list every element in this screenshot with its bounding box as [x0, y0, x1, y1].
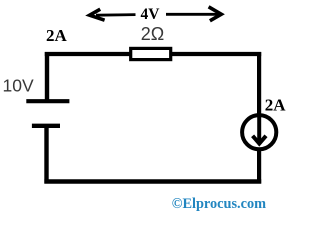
wire: right vertical top (to current source) — [257, 52, 261, 116]
wire: bottom-left vertical (battery - to bottom rail) — [44, 126, 48, 184]
battery V1 10V positive plate — [26, 99, 69, 103]
wire: top rail left segment — [45, 52, 131, 56]
current source I1 2A — [242, 115, 276, 149]
voltage label arrow right (4V) — [166, 7, 221, 21]
svg-text:2Ω: 2Ω — [141, 24, 164, 44]
svg-text:2A: 2A — [46, 26, 68, 45]
resistor R1 2Ω — [131, 48, 171, 59]
wire: top-left vertical (battery + to top rail) — [45, 52, 49, 101]
svg-text:10V: 10V — [3, 76, 34, 96]
battery V1 10V negative plate — [32, 124, 60, 128]
svg-text:4V: 4V — [141, 6, 161, 23]
wire: top rail right segment — [170, 52, 261, 56]
wire: right vertical bottom (current source to bottom rail) — [257, 149, 261, 184]
svg-text:2A: 2A — [265, 96, 287, 115]
wire: bottom rail — [44, 179, 261, 184]
svg-text:©Elprocus.com: ©Elprocus.com — [172, 196, 266, 212]
voltage label arrow left (4V) — [90, 9, 136, 20]
